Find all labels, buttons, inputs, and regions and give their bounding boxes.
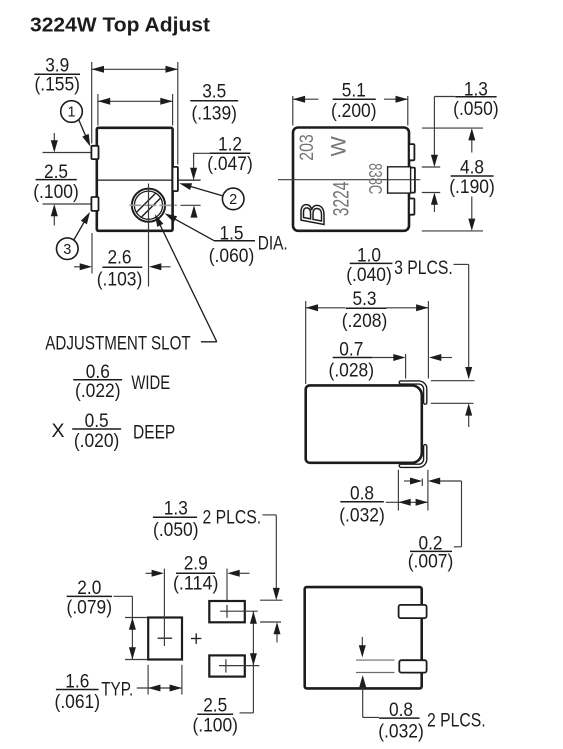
right pads centerline bbox=[226, 569, 228, 618]
dimension 2.5 line with outward arrows bbox=[252, 611, 254, 665]
left pad cross bbox=[158, 637, 173, 639]
extension line lead foot right bbox=[427, 470, 429, 511]
extension line lead outer right up bbox=[427, 301, 429, 379]
extension line elevation body left up bbox=[305, 301, 307, 384]
svg-text:2: 2 bbox=[229, 192, 237, 208]
adjustment screw outer circle bbox=[132, 189, 165, 222]
svg-text:DEEP: DEEP bbox=[133, 422, 175, 444]
bottom view upper lead pad bbox=[399, 605, 427, 618]
dimension 5.3 line bbox=[306, 307, 345, 309]
reference line pin1 centerline bbox=[43, 152, 91, 154]
side view pin tab lower bbox=[409, 199, 414, 215]
svg-text:3224W Top Adjust: 3224W Top Adjust bbox=[30, 14, 210, 37]
vertical centerline through screw bbox=[148, 184, 150, 287]
svg-text:3 PLCS.: 3 PLCS. bbox=[394, 257, 453, 279]
svg-text:(.060): (.060) bbox=[209, 245, 255, 267]
svg-text:2.9: 2.9 bbox=[184, 553, 208, 575]
svg-text:(.047): (.047) bbox=[207, 153, 253, 175]
side view body outline bbox=[293, 128, 409, 231]
svg-text:(.139): (.139) bbox=[191, 102, 237, 124]
side view pin tab middle bbox=[409, 168, 415, 193]
side view horizontal centerline bbox=[278, 179, 420, 181]
dimension 4.8 lower arrow bbox=[471, 197, 473, 222]
svg-text:W: W bbox=[327, 135, 351, 156]
leader 2 PLCS down bbox=[263, 514, 277, 516]
extension line lead start up bbox=[405, 354, 407, 379]
svg-text:2 PLCS.: 2 PLCS. bbox=[203, 506, 262, 528]
dimension 2.9 left arrow bbox=[146, 572, 154, 574]
callout 2 leader bbox=[189, 186, 223, 196]
middle lead edge lines bbox=[356, 659, 395, 661]
side view pin tab upper bbox=[409, 144, 414, 160]
svg-text:838C: 838C bbox=[365, 163, 386, 194]
dimension 2.6 left arrow bbox=[74, 266, 81, 268]
extension line left pad right down bbox=[181, 665, 183, 695]
reference line middle tab bottom bbox=[422, 192, 440, 194]
dimension 0.8 down arrow bbox=[361, 637, 363, 646]
dimension 1.2 down arrow bbox=[193, 155, 195, 170]
svg-text:(.103): (.103) bbox=[97, 269, 143, 291]
svg-text:(.100): (.100) bbox=[192, 715, 238, 737]
svg-text:(.032): (.032) bbox=[378, 721, 424, 743]
dimension 1.2 up arrow bbox=[193, 211, 195, 216]
extension line pin2 tab outer edge up bbox=[177, 62, 179, 165]
svg-text:3: 3 bbox=[63, 242, 71, 258]
pad height up arrow bbox=[276, 633, 278, 643]
extension line left pad bottom bbox=[125, 659, 148, 661]
svg-text:1: 1 bbox=[67, 105, 75, 121]
reference line upper pad bottom bbox=[260, 621, 281, 623]
extension line side body left up bbox=[292, 96, 294, 126]
pin 1 tab bbox=[91, 146, 98, 159]
svg-text:(.061): (.061) bbox=[55, 691, 101, 713]
left pad centerline bbox=[163, 569, 165, 646]
svg-text:ADJUSTMENT SLOT: ADJUSTMENT SLOT bbox=[45, 333, 190, 355]
dimension 0.7 line bbox=[373, 357, 395, 359]
bottom view body outline bbox=[305, 587, 422, 688]
svg-text:1.3: 1.3 bbox=[164, 497, 188, 519]
extension line left tab outer edge bbox=[91, 62, 93, 144]
pin 2 tab bbox=[173, 167, 178, 191]
svg-text:X: X bbox=[52, 420, 65, 442]
reference line lead top edge bbox=[431, 380, 475, 382]
svg-text:2.6: 2.6 bbox=[108, 247, 132, 269]
svg-text:(.020): (.020) bbox=[74, 430, 120, 452]
pattern center cross bbox=[191, 638, 201, 640]
svg-text:3.5: 3.5 bbox=[202, 81, 226, 103]
dimension 1.6 line bbox=[137, 687, 182, 689]
centerline extension right of body bbox=[181, 204, 201, 206]
horizontal centerline through screw bbox=[129, 204, 177, 206]
adjustment screw inner circle bbox=[134, 191, 162, 219]
svg-text:(.208): (.208) bbox=[342, 310, 388, 332]
dimension 1.3 up arrow bbox=[433, 203, 435, 212]
extension line lead foot left bbox=[397, 470, 399, 511]
extension line body right edge up bbox=[172, 94, 174, 126]
dimension 2.5 lower arrow bbox=[53, 214, 55, 226]
dimension 0.7 opposing arrow bbox=[440, 357, 452, 359]
extension line tab outer edge down bbox=[91, 233, 93, 274]
top J-hook lead bbox=[401, 383, 425, 403]
svg-text:(.190): (.190) bbox=[449, 176, 495, 198]
leader 3 PLCS down to lead bbox=[454, 263, 469, 265]
lower right solder pad bbox=[209, 655, 245, 676]
top view housing seam line bbox=[97, 179, 201, 181]
svg-text:(.028): (.028) bbox=[329, 359, 375, 381]
wiper terminal rectangle bbox=[388, 167, 411, 193]
reference line lead bottom edge bbox=[431, 402, 474, 404]
callout 1 leader bbox=[79, 120, 88, 141]
leader 1.5 DIA bbox=[174, 219, 214, 241]
body edge tick bbox=[421, 479, 423, 487]
dimension 2.9 right arrow bbox=[238, 572, 249, 574]
svg-text:TYP.: TYP. bbox=[101, 678, 133, 700]
svg-text:(.050): (.050) bbox=[453, 98, 499, 120]
dimension 4.8 upper arrow bbox=[471, 138, 473, 153]
dimension 5.1 line bbox=[293, 98, 319, 100]
extension line body left edge up bbox=[97, 94, 99, 126]
svg-text:5.1: 5.1 bbox=[342, 80, 366, 102]
reference line side body bottom right bbox=[422, 230, 483, 232]
dimension 3.9 overall width line bbox=[92, 68, 178, 70]
dimension 3.5 body width line bbox=[98, 100, 173, 102]
svg-text:(.022): (.022) bbox=[75, 380, 121, 402]
elevation body outline bbox=[306, 385, 422, 462]
svg-text:(.040): (.040) bbox=[346, 264, 392, 286]
reference line middle tab top bbox=[422, 166, 440, 168]
bottom view lower lead pad bbox=[399, 660, 426, 672]
dimension 0.2 arrow right bbox=[404, 480, 412, 482]
dimension 2.5 upper arrow bbox=[53, 133, 55, 143]
top view body outline bbox=[97, 128, 173, 231]
svg-text:DIA.: DIA. bbox=[258, 233, 288, 255]
svg-text:(.079): (.079) bbox=[67, 596, 113, 618]
dimension 0.8 up arrow with leader bbox=[362, 686, 364, 718]
dimension 1.3 bracket bbox=[434, 96, 455, 98]
svg-text:2 PLCS.: 2 PLCS. bbox=[427, 710, 486, 732]
extension line left pad top bbox=[125, 617, 148, 619]
dimension 1.0 up arrow bbox=[468, 414, 470, 427]
bottom J-hook lead bbox=[401, 446, 425, 466]
dimension 0.2 arrow left with leader bbox=[439, 480, 462, 482]
leader adjustment slot bbox=[201, 341, 217, 343]
svg-text:(.155): (.155) bbox=[34, 74, 80, 96]
reference line side body top right bbox=[422, 127, 483, 129]
callout circle 1 bbox=[61, 101, 83, 123]
extension line left pad left down bbox=[147, 665, 149, 695]
svg-text:(.050): (.050) bbox=[153, 519, 199, 541]
callout circle 3 bbox=[57, 238, 79, 260]
callout 3 leader bbox=[74, 221, 85, 240]
svg-text:(.032): (.032) bbox=[339, 504, 385, 526]
svg-text:(.100): (.100) bbox=[33, 181, 79, 203]
extension line side body right up bbox=[407, 96, 409, 126]
dimension 2.6 right arrow bbox=[160, 266, 171, 268]
callout circle 2 bbox=[222, 188, 244, 210]
left solder pad bbox=[148, 618, 182, 660]
svg-text:(.114): (.114) bbox=[173, 573, 219, 595]
pin 3 tab bbox=[91, 197, 98, 211]
svg-text:(.200): (.200) bbox=[331, 100, 377, 122]
dimension 0.8 line with outward arrows bbox=[386, 501, 428, 503]
svg-text:203: 203 bbox=[297, 134, 318, 161]
svg-text:3224: 3224 bbox=[328, 182, 353, 217]
upper right solder pad bbox=[209, 601, 245, 622]
upper right pad cross bbox=[220, 610, 258, 612]
svg-text:B: B bbox=[294, 203, 331, 225]
lower right pad cross bbox=[219, 665, 259, 667]
dimension 2.0 bracket bbox=[114, 595, 133, 597]
svg-text:WIDE: WIDE bbox=[131, 372, 170, 394]
svg-text:5.3: 5.3 bbox=[353, 288, 377, 310]
svg-text:2.5: 2.5 bbox=[203, 695, 227, 717]
adjustment slot lines bbox=[136, 193, 155, 212]
dimension 1.3 down arrow bbox=[433, 97, 435, 158]
dimension 1.2 bracket bbox=[193, 152, 209, 154]
svg-text:(.007): (.007) bbox=[408, 550, 454, 572]
reference line upper pad top bbox=[260, 599, 282, 601]
dimension 2.5 bracket bbox=[252, 666, 254, 713]
reference line pin3 centerline bbox=[43, 203, 91, 205]
